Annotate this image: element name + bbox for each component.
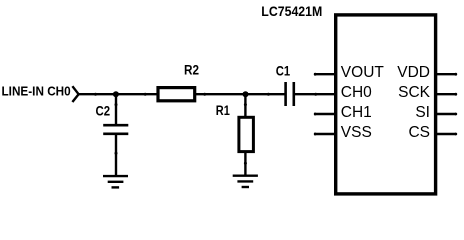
wire joint dot	[115, 152, 118, 155]
svg-text:CS: CS	[408, 124, 430, 141]
svg-text:SCK: SCK	[398, 84, 431, 101]
resistor R2	[158, 88, 195, 101]
svg-text:C1: C1	[276, 63, 291, 78]
pin CH1 stub	[314, 113, 336, 115]
ground below R1	[233, 176, 258, 187]
svg-text:VSS: VSS	[341, 124, 372, 141]
pin SI stub	[436, 113, 456, 115]
resistor R1	[239, 117, 254, 151]
wire junction to R1	[244, 94, 246, 116]
svg-text:LINE-IN CH0: LINE-IN CH0	[2, 83, 71, 98]
IC U1 LC75421M body	[336, 15, 436, 194]
wire R2 to C1	[196, 93, 285, 95]
wire joint dot	[115, 103, 118, 106]
pin VOUT stub	[314, 73, 336, 75]
wire input to R2	[79, 93, 157, 95]
pin VDD stub	[436, 73, 456, 75]
wire C1 to CH0 pin	[295, 93, 336, 95]
pin VSS stub	[314, 133, 336, 135]
wire joint dot	[203, 93, 206, 96]
wire joint dot	[314, 93, 317, 96]
wire joint dot	[244, 162, 247, 165]
pin CS stub	[436, 133, 456, 135]
svg-text:R2: R2	[184, 63, 199, 78]
svg-text:C2: C2	[96, 104, 111, 119]
junction R1 node	[243, 91, 249, 97]
wire joint dot	[94, 93, 97, 96]
ground below C2	[103, 176, 128, 187]
junction C2 node	[113, 91, 119, 97]
svg-text:VOUT: VOUT	[341, 64, 385, 81]
capacitor C1	[286, 82, 294, 106]
capacitor C2	[103, 125, 128, 134]
wire R1 to ground	[244, 153, 246, 176]
svg-text:SI: SI	[415, 104, 430, 121]
wire C2 to ground	[115, 134, 117, 176]
node LINE-IN CH0 input terminal chevron	[72, 86, 78, 102]
svg-text:LC75421M: LC75421M	[261, 3, 322, 19]
wire joint dot	[144, 93, 147, 96]
svg-text:CH0: CH0	[341, 84, 372, 101]
svg-text:VDD: VDD	[397, 64, 430, 81]
pin SCK stub	[436, 93, 456, 95]
svg-text:CH1: CH1	[341, 104, 372, 121]
wire joint dot	[244, 103, 247, 106]
wire joint dot	[267, 93, 270, 96]
svg-text:R1: R1	[216, 103, 230, 118]
wire junction to C2	[115, 94, 117, 124]
